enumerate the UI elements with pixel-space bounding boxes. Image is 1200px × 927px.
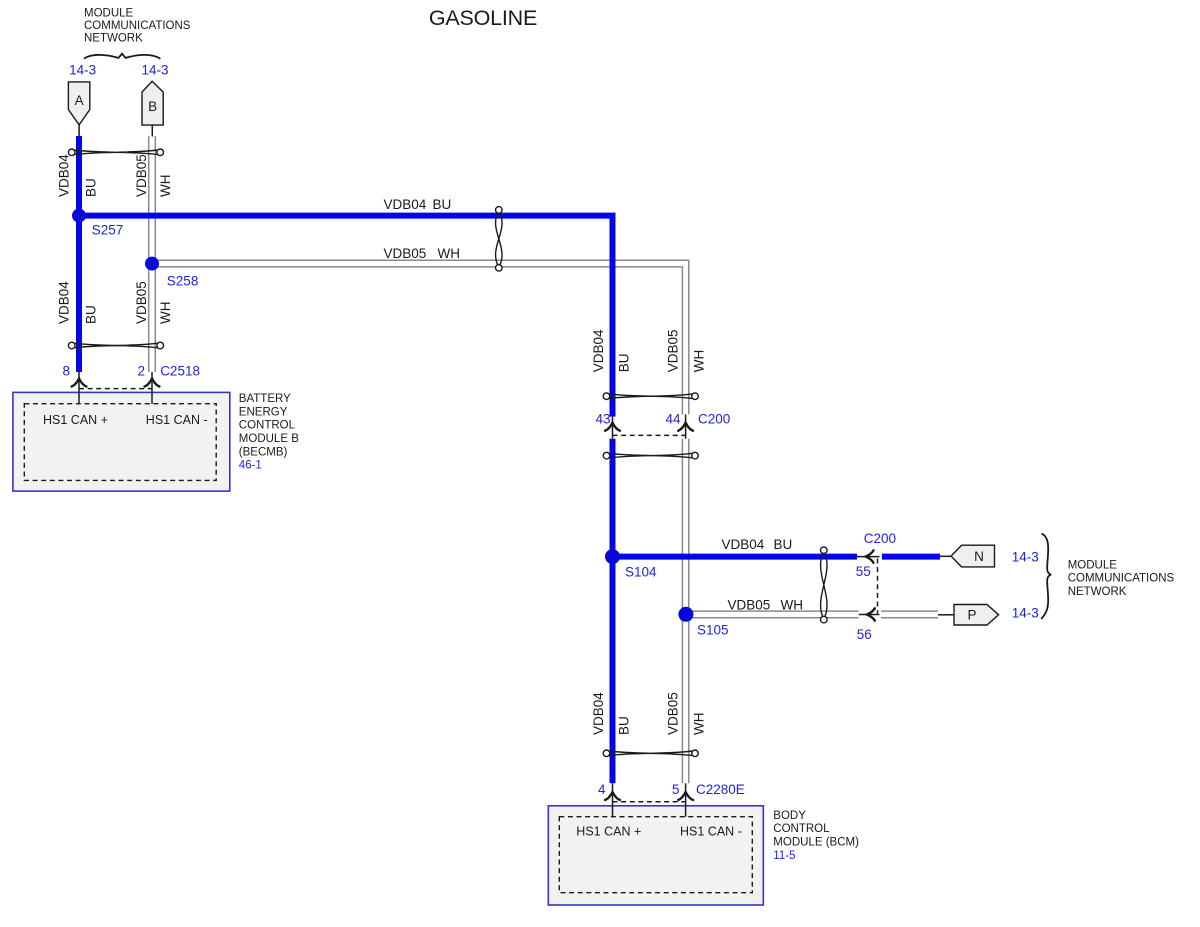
svg-text:VDB05: VDB05 xyxy=(134,281,149,324)
arrow C200 pin 44 xyxy=(678,423,693,431)
lead to connector P xyxy=(938,614,954,616)
lead into BCM pin 5 xyxy=(685,783,687,816)
twisted pair symbol (above BCM) xyxy=(603,750,698,757)
dashed connector line C200 (43/44) xyxy=(613,434,686,436)
module BCM name xyxy=(773,810,859,862)
svg-text:C200: C200 xyxy=(698,411,730,426)
svg-text:VDB04: VDB04 xyxy=(57,154,72,197)
svg-text:P: P xyxy=(967,608,976,623)
svg-text:14-3: 14-3 xyxy=(69,63,96,78)
svg-text:14-3: 14-3 xyxy=(1012,549,1039,564)
svg-text:NETWORK: NETWORK xyxy=(1068,586,1127,598)
svg-text:VDB04: VDB04 xyxy=(591,329,606,372)
svg-text:BATTERY: BATTERY xyxy=(239,393,291,405)
svg-text:55: 55 xyxy=(856,564,871,579)
lead through C200 pin 43 xyxy=(612,417,614,439)
svg-text:N: N xyxy=(974,549,984,564)
svg-text:WH: WH xyxy=(158,302,173,325)
svg-text:MODULE: MODULE xyxy=(84,8,134,20)
wire VDB05 WH (B to C2518 pin 2, white wire vertical) xyxy=(149,136,156,372)
svg-text:14-3: 14-3 xyxy=(141,63,168,78)
svg-text:MODULE (BCM): MODULE (BCM) xyxy=(773,837,859,849)
label module communications network (right) xyxy=(1068,559,1175,598)
arrow C200 pin 55 xyxy=(866,550,874,562)
svg-text:VDB05: VDB05 xyxy=(666,692,681,735)
svg-text:WH: WH xyxy=(691,713,706,736)
svg-text:NETWORK: NETWORK xyxy=(84,33,143,45)
svg-text:B: B xyxy=(148,99,157,114)
svg-text:WH: WH xyxy=(438,246,461,261)
svg-text:4: 4 xyxy=(598,782,606,797)
lead from connector A xyxy=(78,125,80,136)
svg-text:56: 56 xyxy=(857,627,872,642)
brace top-left xyxy=(84,54,160,59)
svg-text:C200: C200 xyxy=(864,531,896,546)
label module communications network (top left) xyxy=(84,8,191,45)
connector A xyxy=(68,82,89,125)
arrow C2280E pin 5 xyxy=(678,792,693,800)
svg-text:46-1: 46-1 xyxy=(239,460,262,472)
svg-text:MODULE B: MODULE B xyxy=(239,433,299,445)
wire VDB04 BU (S257 to C200, horizontal then down) xyxy=(79,216,613,417)
svg-text:WH: WH xyxy=(691,350,706,373)
arrow C2518 pin 8 xyxy=(72,379,87,387)
svg-text:S104: S104 xyxy=(625,564,657,579)
dashed connector line C200 (55/56) xyxy=(877,559,879,614)
svg-text:HS1 CAN -: HS1 CAN - xyxy=(680,824,742,838)
svg-text:VDB05: VDB05 xyxy=(728,597,771,612)
svg-text:S257: S257 xyxy=(92,222,124,237)
twisted pair symbol (above C200 43/44) xyxy=(603,393,698,400)
svg-text:HS1 CAN +: HS1 CAN + xyxy=(576,824,641,838)
arrow C200 pin 56 xyxy=(867,608,875,620)
svg-text:WH: WH xyxy=(158,175,173,198)
twisted pair symbol (vertical, between top horizontal runs) xyxy=(496,207,503,272)
svg-text:(BECMB): (BECMB) xyxy=(239,446,288,458)
svg-text:BU: BU xyxy=(83,305,98,324)
twisted pair symbol (vertical, between S104/S105 runs) xyxy=(821,547,828,623)
twisted pair symbol (below C200 43/44) xyxy=(603,452,698,459)
svg-text:BU: BU xyxy=(83,178,98,197)
arrow C2280E pin 4 xyxy=(605,792,620,800)
splice S258 xyxy=(145,257,159,271)
svg-text:S105: S105 xyxy=(697,623,729,638)
svg-text:VDB04: VDB04 xyxy=(57,281,72,324)
dashed connector line C2280E xyxy=(613,801,686,803)
lead to connector N xyxy=(940,555,951,557)
module BECMB name xyxy=(239,393,299,472)
svg-text:HS1 CAN -: HS1 CAN - xyxy=(146,413,208,427)
wire VDB04 BU (C200 pin 55 to N) xyxy=(882,554,940,560)
svg-text:5: 5 xyxy=(672,782,680,797)
svg-text:COMMUNICATIONS: COMMUNICATIONS xyxy=(1068,573,1175,585)
svg-text:2: 2 xyxy=(137,364,145,379)
svg-text:8: 8 xyxy=(62,364,70,379)
svg-text:44: 44 xyxy=(665,411,681,426)
lead into BECMB pin 8 xyxy=(78,372,80,404)
twisted pair symbol (A/B wires) xyxy=(68,149,163,156)
splice S257 xyxy=(72,209,86,223)
svg-text:VDB05: VDB05 xyxy=(134,154,149,197)
arrow C2518 pin 2 xyxy=(145,379,160,387)
splice S105 xyxy=(678,607,693,622)
module BECMB inner dashed box xyxy=(24,404,216,481)
svg-text:WH: WH xyxy=(781,597,804,612)
svg-text:MODULE: MODULE xyxy=(1068,559,1118,571)
arrow C200 pin 43 xyxy=(605,423,620,431)
lead into BECMB pin 2 xyxy=(151,372,153,404)
svg-text:COMMUNICATIONS: COMMUNICATIONS xyxy=(84,20,191,32)
svg-text:HS1 CAN +: HS1 CAN + xyxy=(43,413,108,427)
svg-text:VDB05: VDB05 xyxy=(666,330,681,373)
wire VDB04 BU (C200 pin 43 to BCM pin 4, vertical) xyxy=(610,439,616,784)
lead through C200 pin 56 xyxy=(859,614,880,616)
svg-text:14-3: 14-3 xyxy=(1012,606,1039,621)
svg-text:C2280E: C2280E xyxy=(696,782,745,797)
dashed connector line C2518 xyxy=(79,388,152,390)
lead into BCM pin 4 xyxy=(612,783,614,816)
svg-text:CONTROL: CONTROL xyxy=(239,420,296,432)
svg-text:VDB05: VDB05 xyxy=(384,246,427,261)
wire VDB05 WH (S105 to C200 pin 56, horizontal) xyxy=(683,611,859,618)
lead through C200 pin 44 xyxy=(685,415,687,439)
svg-text:BU: BU xyxy=(433,197,452,212)
connector P xyxy=(954,605,999,626)
wire VDB04 BU (S104 to C200 pin 55, horizontal) xyxy=(613,554,858,560)
svg-text:ENERGY: ENERGY xyxy=(239,406,288,418)
module BCM inner dashed box xyxy=(559,817,752,893)
wire VDB05 WH (C200 pin 44 to BCM pin 5, vertical) xyxy=(682,439,688,784)
connector N xyxy=(951,545,995,567)
module BECMB box xyxy=(13,392,230,491)
connector B xyxy=(142,81,163,125)
svg-text:GASOLINE: GASOLINE xyxy=(429,6,537,30)
svg-text:A: A xyxy=(75,93,84,108)
wire VDB05 WH (C200 pin 56 to P) xyxy=(881,611,938,618)
lead from connector B xyxy=(151,125,153,136)
brace right xyxy=(1041,534,1051,620)
wire VDB04 BU (A to C2518 pin 8, blue vertical) xyxy=(76,136,82,372)
module BCM box xyxy=(548,806,763,905)
twisted pair symbol (above C2518) xyxy=(68,342,163,349)
wire VDB05 WH (S258 to C200, horizontal then down) xyxy=(152,260,689,414)
svg-text:S258: S258 xyxy=(167,273,199,288)
svg-text:VDB04: VDB04 xyxy=(384,197,427,212)
svg-text:11-5: 11-5 xyxy=(773,850,795,862)
svg-text:BU: BU xyxy=(616,716,631,735)
svg-text:43: 43 xyxy=(595,411,610,426)
svg-text:C2518: C2518 xyxy=(160,364,200,379)
svg-text:VDB04: VDB04 xyxy=(722,537,765,552)
lead through C200 pin 55 xyxy=(857,556,880,558)
svg-text:CONTROL: CONTROL xyxy=(773,823,830,835)
svg-text:BODY: BODY xyxy=(773,810,806,822)
svg-text:VDB04: VDB04 xyxy=(591,692,606,735)
svg-text:BU: BU xyxy=(616,354,631,373)
svg-text:BU: BU xyxy=(774,537,793,552)
splice S104 xyxy=(605,549,620,564)
